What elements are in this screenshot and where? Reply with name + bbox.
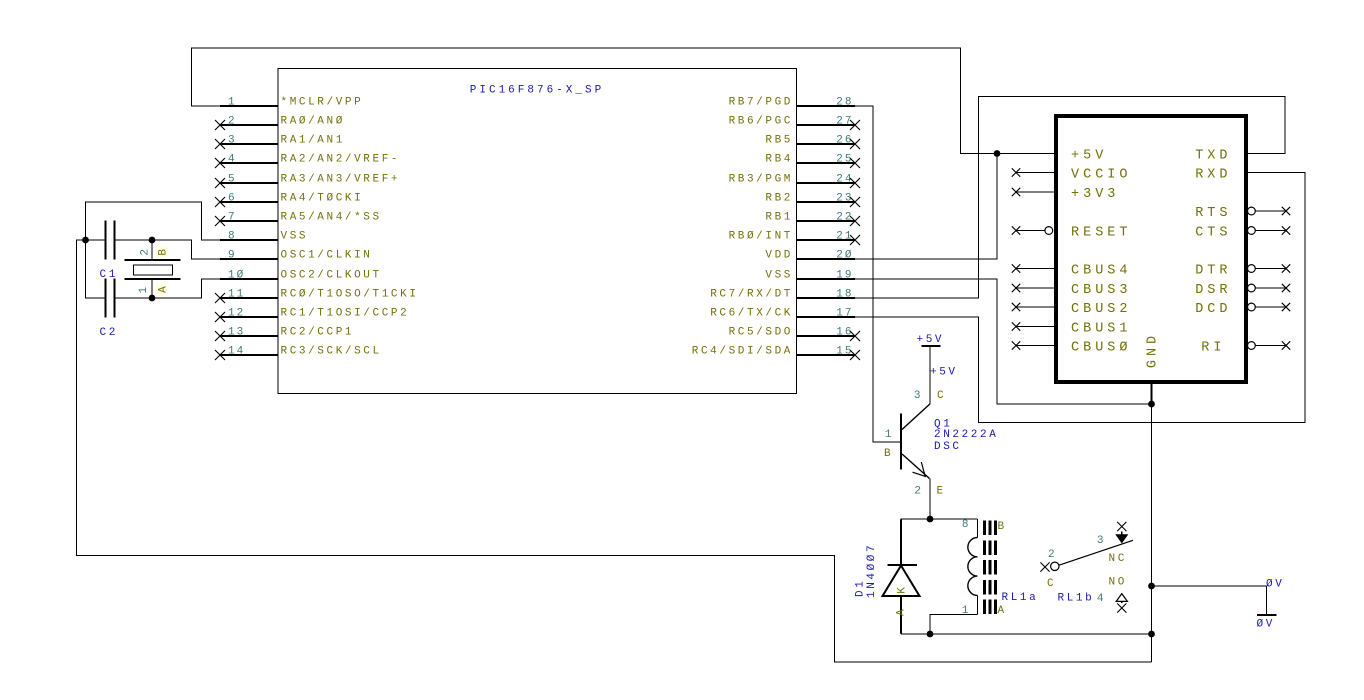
svg-text:RBØ/INT: RBØ/INT <box>729 231 793 243</box>
svg-text:28: 28 <box>836 97 853 109</box>
svg-text:DTR: DTR <box>1195 263 1231 278</box>
svg-text:D1: D1 <box>855 579 867 597</box>
relay switch RL1b common pole <box>1040 540 1133 571</box>
U1 pin 8 VSS <box>220 231 308 243</box>
svg-text:VSS: VSS <box>765 270 793 282</box>
svg-text:B: B <box>158 246 170 255</box>
wire net +5V: MCLR pin1 to top rail to FTDI +5V pin <box>192 48 1055 154</box>
svg-text:7: 7 <box>228 212 237 224</box>
svg-text:K: K <box>897 585 909 594</box>
svg-text:1N4ØØ7: 1N4ØØ7 <box>866 543 878 598</box>
wire net GND: FTDI GND rail down right side <box>1151 385 1153 662</box>
U2 pin RTS <box>1195 206 1290 221</box>
svg-text:1: 1 <box>138 285 150 294</box>
svg-text:A: A <box>158 284 170 293</box>
0V power symbol <box>1257 614 1277 616</box>
U2 pin RXD <box>1195 167 1231 182</box>
svg-text:C: C <box>937 390 946 402</box>
svg-text:RXD: RXD <box>1195 167 1231 182</box>
wire net COIL-: relay coil pin 1 to ground rail <box>930 615 978 635</box>
wire net RB7: PIC pin 28 to Q1 base <box>855 106 901 442</box>
svg-text:DCD: DCD <box>1195 302 1231 317</box>
wire net 0V branch to power symbol <box>1152 586 1267 615</box>
svg-text:3: 3 <box>228 135 237 147</box>
svg-text:ØV: ØV <box>1266 579 1284 591</box>
svg-text:RA5/AN4/*SS: RA5/AN4/*SS <box>281 212 382 224</box>
svg-text:14: 14 <box>228 346 245 358</box>
U1 pin 13 RC2/CCP1 <box>215 327 354 342</box>
svg-text:CBUSØ: CBUSØ <box>1071 340 1132 355</box>
wire net GND: bottom loop to left side <box>77 240 1152 662</box>
U1 pin 7 RA5/AN4/*SS <box>215 212 382 227</box>
svg-text:+5V: +5V <box>917 334 945 346</box>
svg-text:RC3/SCK/SCL: RC3/SCK/SCL <box>281 346 382 358</box>
microcontroller U1 PIC16F876 body <box>278 69 797 394</box>
svg-text:NO: NO <box>1109 577 1127 589</box>
capacitor C2 <box>106 279 115 318</box>
U2 pin CTS <box>1195 225 1290 240</box>
svg-text:VSS: VSS <box>281 231 309 243</box>
wire net TXD: FTDI TXD to PIC RC7/RX pin 18 <box>855 97 1285 299</box>
svg-text:13: 13 <box>228 327 245 339</box>
junction node coil return on GND rail <box>927 631 934 638</box>
U1 pin 16 RC5/SDO <box>729 327 860 342</box>
svg-text:+5V: +5V <box>1071 148 1107 163</box>
svg-text:RTS: RTS <box>1195 206 1231 221</box>
svg-text:19: 19 <box>836 270 853 282</box>
svg-text:RB7/PGD: RB7/PGD <box>729 97 793 109</box>
svg-text:CBUS2: CBUS2 <box>1071 302 1132 317</box>
svg-text:RL1a: RL1a <box>1002 592 1039 604</box>
svg-text:NC: NC <box>1109 553 1127 565</box>
svg-text:C2: C2 <box>100 327 118 339</box>
RL1b NC contact <box>1116 522 1127 543</box>
junction node OSC2 at crystal bottom <box>149 295 156 302</box>
U1 pin 18 RC7/RX/DT <box>710 289 855 301</box>
U2 pin VCCIO <box>1012 167 1132 182</box>
RL1b NO contact <box>1116 594 1127 613</box>
wire net OSC2: C2 to crystal pin 1 to PIC pin 10 <box>115 279 221 298</box>
+5V power symbol <box>922 346 941 404</box>
svg-text:17: 17 <box>836 308 853 320</box>
U2 pin +3V3 <box>1012 187 1120 202</box>
junction node emitter/coil <box>927 516 934 523</box>
svg-text:1: 1 <box>885 429 894 441</box>
svg-text:1: 1 <box>962 605 971 617</box>
junction node GND under FTDI <box>1148 401 1155 408</box>
wire net GND: C2 left branch <box>86 240 106 298</box>
svg-text:1Ø: 1Ø <box>228 270 245 282</box>
svg-text:*MCLR/VPP: *MCLR/VPP <box>281 97 364 109</box>
svg-text:2N2222A: 2N2222A <box>934 429 998 441</box>
crystal X1 body <box>125 240 181 298</box>
svg-text:RA3/AN3/VREF+: RA3/AN3/VREF+ <box>281 174 401 186</box>
svg-text:8: 8 <box>962 519 971 531</box>
U1 pin 24 RB3/PGM <box>729 174 860 189</box>
wire net OSC1: C1 to crystal pin 2 to PIC pin 9 <box>115 240 221 259</box>
U2 pin TXD <box>1195 148 1231 163</box>
svg-text:4: 4 <box>228 154 237 166</box>
svg-text:RB6/PGC: RB6/PGC <box>729 116 793 128</box>
svg-text:TXD: TXD <box>1195 148 1231 163</box>
svg-text:18: 18 <box>836 289 853 301</box>
svg-text:RL1b: RL1b <box>1058 593 1095 605</box>
U2 pin CBUS1 <box>1012 321 1132 336</box>
svg-text:CBUS1: CBUS1 <box>1071 321 1132 336</box>
svg-text:2Ø: 2Ø <box>836 250 853 262</box>
U1 pin 14 RC3/SCK/SCL <box>215 346 382 361</box>
svg-text:8: 8 <box>228 231 237 243</box>
wire net +5V: PIC VDD pin20 riser <box>855 154 997 260</box>
svg-text:RC2/CCP1: RC2/CCP1 <box>281 327 355 339</box>
svg-text:CBUS3: CBUS3 <box>1071 283 1132 298</box>
svg-text:9: 9 <box>228 250 237 262</box>
svg-text:RC1/T1OSI/CCP2: RC1/T1OSI/CCP2 <box>281 308 410 320</box>
svg-text:RB4: RB4 <box>765 154 793 166</box>
svg-text:DSR: DSR <box>1195 283 1231 298</box>
svg-text:CBUS4: CBUS4 <box>1071 263 1132 278</box>
U1 pin 19 VSS <box>765 270 855 282</box>
svg-text:RCØ/T1OSO/T1CKI: RCØ/T1OSO/T1CKI <box>281 289 419 301</box>
svg-text:OSC1/CLKIN: OSC1/CLKIN <box>281 250 373 262</box>
X1 pin name A <box>156 284 167 296</box>
U1 pin 1 *MCLR/VPP <box>220 97 363 109</box>
svg-text:3: 3 <box>914 390 923 402</box>
U2 pin CBUS3 <box>1012 283 1132 298</box>
diode D1 1N4007 <box>883 520 920 634</box>
svg-text:VCCIO: VCCIO <box>1071 167 1132 182</box>
svg-text:6: 6 <box>228 193 237 205</box>
U1 pin 28 RB7/PGD <box>729 97 855 109</box>
U2 pin CBUS0 <box>1012 340 1132 355</box>
U1 pin 6 RA4/T0CKI <box>215 193 363 208</box>
svg-text:RC5/SDO: RC5/SDO <box>729 327 793 339</box>
svg-text:1: 1 <box>228 97 237 109</box>
U1 pin 27 RB6/PGC <box>729 116 860 131</box>
svg-text:+3V3: +3V3 <box>1071 187 1119 202</box>
svg-text:RI: RI <box>1201 340 1225 355</box>
junction node OSC1 at crystal top <box>149 237 156 244</box>
svg-text:2: 2 <box>140 247 152 256</box>
wire net GND: C1/C2 junction to PIC VSS pin8 <box>86 202 221 240</box>
svg-text:11: 11 <box>228 289 245 301</box>
U1 pin 21 RB0/INT <box>729 231 860 246</box>
relay coil RL1a <box>968 519 978 615</box>
svg-text:VDD: VDD <box>765 250 793 262</box>
svg-text:A: A <box>998 605 1007 617</box>
svg-text:PIC16F876-X_SP: PIC16F876-X_SP <box>470 85 604 97</box>
relay core bars <box>985 521 996 615</box>
U1 pin 4 RA2/AN2/VREF- <box>215 154 400 169</box>
junction node GND at capacitors <box>82 237 89 244</box>
U2 pin RESET <box>1012 225 1132 240</box>
U2 pin CBUS4 <box>1012 263 1132 278</box>
junction node 0V branch <box>1148 583 1155 590</box>
U1 pin 17 RC6/TX/CK <box>710 308 855 320</box>
svg-text:RA1/AN1: RA1/AN1 <box>281 135 345 147</box>
U1 pin 25 RB4 <box>765 154 860 169</box>
U1 pin 22 RB1 <box>765 212 860 227</box>
svg-text:C: C <box>1047 578 1056 590</box>
FTDI USB module U2 body <box>1056 116 1246 382</box>
U2 pin CBUS2 <box>1012 302 1132 317</box>
U2 pin DSR <box>1195 283 1290 298</box>
X1 pin name B <box>156 246 167 258</box>
U1 pin 12 RC1/T1OSI/CCP2 <box>215 308 409 323</box>
U1 pin 2 RA0/AN0 <box>215 116 345 131</box>
svg-text:12: 12 <box>228 308 245 320</box>
junction node +5V at FTDI pin <box>994 150 1001 157</box>
U1 pin 3 RA1/AN1 <box>215 135 345 150</box>
svg-text:4: 4 <box>1097 593 1106 605</box>
svg-text:CTS: CTS <box>1195 225 1231 240</box>
capacitor C1 <box>106 221 115 260</box>
svg-text:RC7/RX/DT: RC7/RX/DT <box>710 289 793 301</box>
U2 pin DTR <box>1195 263 1290 278</box>
svg-text:DSC: DSC <box>934 441 962 453</box>
svg-text:B: B <box>884 448 893 460</box>
U1 pin 10 OSC2/CLKOUT <box>220 270 382 282</box>
U2 pin RI <box>1201 340 1290 355</box>
junction node GND rail right <box>1148 631 1155 638</box>
svg-text:RB5: RB5 <box>765 135 793 147</box>
U2 pin +5V <box>1071 148 1107 163</box>
svg-text:RESET: RESET <box>1071 225 1132 240</box>
transistor Q1 2N2222A <box>901 404 930 479</box>
svg-text:ØV: ØV <box>1257 619 1275 631</box>
svg-text:2: 2 <box>914 486 923 498</box>
U1 pin 9 OSC1/CLKIN <box>220 250 373 262</box>
svg-text:B: B <box>998 521 1007 533</box>
svg-text:A: A <box>896 607 908 616</box>
svg-text:RAØ/ANØ: RAØ/ANØ <box>281 116 345 128</box>
U1 pin 11 RC0/T1OSO/T1CKI <box>215 289 419 304</box>
svg-text:RB3/PGM: RB3/PGM <box>729 174 793 186</box>
svg-text:+5V: +5V <box>930 367 958 379</box>
svg-text:E: E <box>937 486 946 498</box>
svg-text:2: 2 <box>228 116 237 128</box>
U1 pin 5 RA3/AN3/VREF+ <box>215 174 400 189</box>
U2 pin GND (bottom) <box>1146 332 1161 404</box>
svg-text:5: 5 <box>228 174 237 186</box>
svg-text:3: 3 <box>1097 535 1106 547</box>
svg-text:RA2/AN2/VREF-: RA2/AN2/VREF- <box>281 154 401 166</box>
svg-text:RA4/TØCKI: RA4/TØCKI <box>281 193 364 205</box>
svg-text:RC4/SDI/SDA: RC4/SDI/SDA <box>692 346 793 358</box>
svg-text:GND: GND <box>1146 332 1161 368</box>
svg-text:RB2: RB2 <box>765 193 793 205</box>
svg-text:RB1: RB1 <box>765 212 793 224</box>
U1 pin 23 RB2 <box>765 193 860 208</box>
U1 pin 15 RC4/SDI/SDA <box>692 346 860 361</box>
wire net GND: PIC VSS pin19 to FTDI GND <box>855 279 1152 404</box>
wire net RXD: FTDI RXD to PIC RC6/TX pin 17 <box>855 173 1305 423</box>
wire net COIL+: Q1 emitter to relay coil and diode cathode <box>901 479 978 522</box>
wire net GND: diode anode to GND rail <box>901 597 1152 634</box>
U1 pin 20 VDD <box>765 250 855 262</box>
wire net GND: C1 left plate <box>86 239 106 241</box>
svg-text:RC6/TX/CK: RC6/TX/CK <box>710 308 793 320</box>
svg-text:OSC2/CLKOUT: OSC2/CLKOUT <box>281 270 382 282</box>
U2 pin DCD <box>1195 302 1290 317</box>
svg-text:2: 2 <box>1048 549 1057 561</box>
U1 pin 26 RB5 <box>765 135 860 150</box>
